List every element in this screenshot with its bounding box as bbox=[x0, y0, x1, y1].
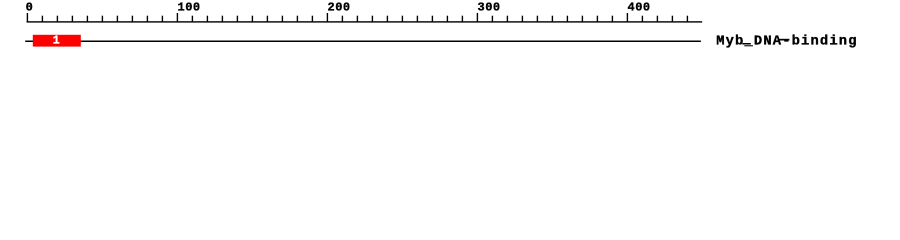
ruler axis line bbox=[27, 21, 703, 22]
svg-text:0: 0 bbox=[26, 0, 34, 14]
underscore stroke of domain name bbox=[742, 43, 751, 45]
hyphen stroke of domain name bbox=[779, 39, 789, 41]
major tick 0 bbox=[27, 13, 28, 23]
domain box Myb_DNA-binding (start=1) bbox=[33, 35, 81, 47]
svg-text:100: 100 bbox=[178, 0, 201, 14]
svg-text:1: 1 bbox=[53, 34, 60, 48]
major tick 100 bbox=[177, 13, 178, 23]
sequence line bbox=[25, 41, 701, 43]
major tick 300 bbox=[477, 13, 478, 23]
minor ticks every 10 residues bbox=[42, 16, 688, 23]
major tick 200 bbox=[327, 13, 328, 23]
svg-text:Myb_DNA-binding: Myb_DNA-binding bbox=[716, 34, 857, 50]
svg-text:300: 300 bbox=[478, 0, 501, 14]
major tick 400 bbox=[627, 13, 628, 23]
svg-text:200: 200 bbox=[328, 0, 351, 14]
svg-text:400: 400 bbox=[628, 0, 651, 14]
